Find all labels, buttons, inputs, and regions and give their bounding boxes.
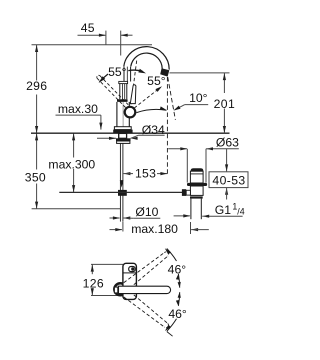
wire top reference line of spout height	[32, 44, 153, 46]
lever ball joint	[125, 107, 136, 118]
dashed rotated lever left	[97, 75, 128, 107]
wire mounting deck line	[31, 132, 230, 134]
dashed outlet axis vertical	[166, 77, 168, 176]
dashed handle rotated up	[124, 252, 169, 285]
dashed lever axis line	[130, 60, 137, 110]
svg-text:Ø10: Ø10	[135, 205, 158, 219]
plan view knob notch	[114, 287, 117, 293]
dimension 296 overall height	[26, 45, 47, 133]
pull rod vertical	[120, 143, 123, 221]
label 55 degrees left	[108, 65, 127, 79]
angle arc 55 left with arrows	[99, 69, 146, 83]
svg-text:Ø63: Ø63	[216, 136, 239, 150]
horizontal pop-up rod	[59, 191, 182, 193]
plan view aerator	[129, 267, 136, 272]
svg-text:46°: 46°	[168, 262, 187, 276]
neck cylinder	[120, 84, 127, 100]
rod slide arrow	[120, 180, 124, 188]
mounting nut	[116, 138, 131, 143]
threaded shank	[119, 133, 127, 138]
plan view swivel knob	[114, 283, 126, 295]
dimension 201 outlet height	[170, 73, 236, 133]
wire max depth reference line	[32, 208, 121, 210]
label 55 degrees right	[147, 74, 166, 88]
dimension 350 depth below deck	[25, 133, 46, 209]
collar joint	[119, 81, 128, 83]
plan view spout	[123, 263, 136, 299]
dimension 126 plan depth	[83, 264, 123, 295]
svg-text:350: 350	[25, 171, 46, 185]
svg-text:296: 296	[26, 79, 47, 93]
dimension Ø10 rod	[110, 205, 161, 219]
svg-text:G11/4: G11/4	[215, 202, 245, 217]
svg-text:45: 45	[81, 21, 95, 35]
dashed handle rotated down	[124, 295, 169, 328]
waste tailpipe	[191, 199, 201, 220]
cartridge dome cap	[117, 99, 128, 102]
label 46 degrees bottom	[168, 307, 187, 321]
dimension max.300 rod length	[48, 133, 95, 192]
waste body	[190, 186, 203, 195]
dimension 45 spout offset	[78, 21, 133, 55]
waste plug dome	[191, 168, 204, 171]
dimension 40-53 clamping range	[209, 149, 248, 200]
dimension max.30 deck thickness	[56, 102, 103, 130]
dashed outlet axis tilted 10	[168, 77, 176, 120]
svg-text:46°: 46°	[168, 307, 187, 321]
lever handle	[130, 85, 136, 104]
svg-text:55°: 55°	[147, 74, 166, 88]
angle arc 46 top	[165, 248, 181, 288]
dashed rotated lever right with arrow	[134, 86, 162, 108]
svg-text:10°: 10°	[189, 91, 208, 105]
dimension max.180	[110, 222, 209, 236]
svg-text:max.180: max.180	[131, 222, 178, 236]
waste upper stem	[190, 171, 203, 183]
spout curved tube	[124, 47, 169, 70]
label 10 degrees with leader	[174, 91, 209, 111]
swivel arc bottom with arrow	[137, 106, 167, 112]
svg-text:40-53: 40-53	[212, 174, 245, 188]
base escutcheon	[113, 127, 132, 133]
waste locknut	[190, 196, 203, 198]
svg-text:153: 153	[135, 166, 156, 180]
label G1 1/4 thread	[174, 202, 245, 218]
angle arc 46 bottom	[165, 292, 181, 336]
label 46 degrees top	[168, 262, 187, 276]
dimension 153 reach	[123, 166, 167, 180]
riser tubes from spout to body	[124, 67, 131, 82]
waste flange	[187, 183, 207, 186]
rod clamp block	[182, 189, 191, 196]
svg-text:201: 201	[214, 97, 236, 111]
svg-text:max.30: max.30	[58, 102, 98, 116]
body cylinder	[117, 102, 129, 127]
svg-text:max.300: max.300	[48, 157, 95, 171]
dimension Ø34 shank	[97, 123, 165, 140]
plan view handle bar	[119, 286, 171, 293]
dimension Ø63 flange	[168, 136, 239, 183]
svg-text:55°: 55°	[108, 65, 127, 79]
spout outlet nozzle	[160, 68, 169, 76]
rod junction coupler	[118, 190, 127, 196]
svg-text:126: 126	[83, 276, 104, 290]
